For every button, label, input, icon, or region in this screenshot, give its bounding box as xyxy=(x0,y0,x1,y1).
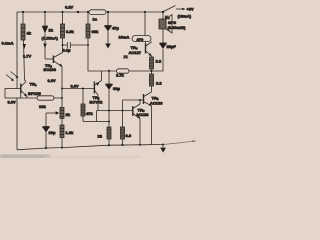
svg-text:BC108: BC108 xyxy=(44,67,57,72)
svg-text:TR1: TR1 xyxy=(30,82,37,88)
potentiometer VR1 2k xyxy=(60,108,64,119)
bottom edge smudge xyxy=(0,155,50,159)
wire TR2 emitter down xyxy=(61,67,63,108)
wire left rail lower xyxy=(16,98,18,150)
wire driver base row y110.6 xyxy=(97,110,133,112)
svg-text:BCY72: BCY72 xyxy=(90,100,104,105)
svg-text:(8-50mW): (8-50mW) xyxy=(168,25,187,30)
wire emitter row to pot xyxy=(20,97,38,99)
wire D1 to TR2 base with arrow xyxy=(44,34,46,60)
node junction dots top rail xyxy=(22,11,164,13)
svg-text:K2: K2 xyxy=(165,15,170,21)
resistor R6 2.7k horizontal xyxy=(117,69,130,73)
wire TR3 collector down xyxy=(97,95,99,111)
svg-text:470: 470 xyxy=(137,37,144,42)
transistor TR6 AC128 lower output xyxy=(132,106,134,116)
svg-text:2.2: 2.2 xyxy=(156,81,162,86)
svg-text:47μ: 47μ xyxy=(112,26,119,31)
svg-text:6.8: 6.8 xyxy=(126,133,132,138)
resistor R8 22 xyxy=(107,127,111,139)
svg-text:2.7k: 2.7k xyxy=(116,73,125,78)
ground xyxy=(162,145,164,148)
svg-text:1k: 1k xyxy=(49,28,54,33)
svg-text:+9V: +9V xyxy=(187,7,195,12)
wire TR3 base row xyxy=(62,88,94,90)
capacitor C5 25uF output xyxy=(160,43,166,44)
svg-text:1.7V: 1.7V xyxy=(23,54,32,59)
svg-text:AC128: AC128 xyxy=(150,101,163,106)
resistor R3 68k (x88) xyxy=(87,12,89,24)
wire bottom rail faint tail to 0V xyxy=(163,141,193,144)
switch K2 xyxy=(164,6,176,12)
svg-text:(0.25mA): (0.25mA) xyxy=(42,36,59,41)
resistor R11 2.2 upper xyxy=(151,56,153,57)
wire bottom rail xyxy=(17,145,163,150)
wire upper driver base row y100 xyxy=(123,99,144,101)
svg-text:21: 21 xyxy=(124,54,129,59)
svg-text:25μF: 25μF xyxy=(167,44,177,49)
transistor TR4 AC127 xyxy=(145,44,147,54)
resistor R9 6.8 xyxy=(122,111,124,127)
svg-text:0.1μ: 0.1μ xyxy=(63,48,72,53)
svg-text:10mA: 10mA xyxy=(119,35,130,40)
svg-text:10k: 10k xyxy=(39,104,46,109)
svg-text:4k: 4k xyxy=(27,31,32,36)
light arrows xyxy=(6,75,14,81)
svg-text:2.2: 2.2 xyxy=(156,59,162,64)
svg-text:AC128: AC128 xyxy=(136,112,149,117)
transistor TR5 AC128 upper output xyxy=(143,94,145,104)
svg-text:(16mA): (16mA) xyxy=(178,14,192,19)
capacitor C3 10u xyxy=(43,127,49,128)
wire top rail xyxy=(17,11,163,13)
svg-text:AC127: AC127 xyxy=(129,50,142,55)
svg-text:0.1mA: 0.1mA xyxy=(2,41,14,46)
svg-text:6.9V: 6.9V xyxy=(48,78,57,83)
capacitor C2 47u (x108) xyxy=(107,12,109,26)
wire C2 down with current arrow xyxy=(107,32,109,45)
wire left rail upper xyxy=(16,12,18,89)
wire R2 to TR2 collector xyxy=(62,38,64,53)
transistor TR2 BC108 xyxy=(52,56,54,64)
speaker LS1 xyxy=(162,12,164,19)
svg-text:3.9k: 3.9k xyxy=(66,29,75,34)
resistor R1 4k (left, x23) xyxy=(22,12,24,24)
svg-text:0.9V: 0.9V xyxy=(8,99,17,104)
resistor R12 2.2 lower xyxy=(150,74,154,86)
capacitor C1 0.1u xyxy=(63,44,68,46)
resistor R7 47k (x83) xyxy=(82,88,84,90)
svg-text:1.2k: 1.2k xyxy=(66,130,75,135)
resistor R2 3.9k (x62.5) xyxy=(62,12,64,24)
wire TR3 emitter up to node row xyxy=(101,71,103,81)
wire R1 to TR1 collector with 0.1mA current arrow xyxy=(24,40,25,80)
diode D1 (x45 black) xyxy=(44,12,46,26)
svg-text:10μ: 10μ xyxy=(49,130,56,135)
svg-text:3.0V: 3.0V xyxy=(71,84,80,89)
resistor R10 470 (base feed box) xyxy=(132,36,151,42)
wiper arrow xyxy=(46,112,56,114)
node dot xyxy=(62,44,64,46)
wire feedback row y121.5 xyxy=(83,121,97,123)
capacitor C4 33u xyxy=(108,71,110,84)
svg-text:68k: 68k xyxy=(92,29,99,34)
svg-text:47k: 47k xyxy=(86,111,93,116)
paper background xyxy=(0,0,200,158)
svg-text:33μ: 33μ xyxy=(113,86,120,91)
svg-text:22: 22 xyxy=(98,134,103,139)
svg-text:1a: 1a xyxy=(93,17,98,22)
svg-text:BPX25: BPX25 xyxy=(28,91,41,96)
resistor R4 10k horizontal xyxy=(37,96,54,100)
svg-text:6.2V: 6.2V xyxy=(65,5,74,10)
base loop rectangle xyxy=(5,89,21,99)
wire mid output row y71 xyxy=(98,70,117,72)
fuse F1 1a in top rail xyxy=(89,10,106,15)
transistor TR3 BCY72 xyxy=(93,82,95,94)
wire R3 down to output rail wire xyxy=(88,38,98,71)
resistor R5 1.2k xyxy=(61,119,63,126)
svg-text:2k: 2k xyxy=(66,112,71,117)
